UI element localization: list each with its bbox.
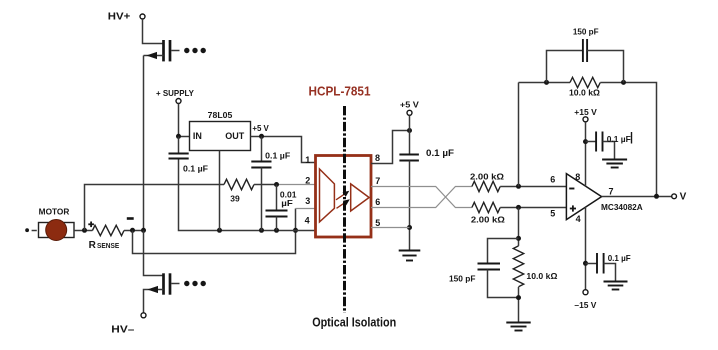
ground (C7) xyxy=(602,160,627,168)
wire 78L05 ground lead xyxy=(219,151,221,231)
optical isolation dash-dot line xyxy=(343,106,346,313)
resistor R3 2.00k (lower) xyxy=(472,202,500,212)
node supply junction xyxy=(176,134,181,139)
wire Q1 source down to sense node xyxy=(143,56,145,231)
node detour/rail junction xyxy=(293,228,298,233)
resistor R4 10.0k feedback xyxy=(570,77,600,87)
node motor lead continuation dot xyxy=(25,228,29,232)
wire pin5 stub xyxy=(371,227,410,229)
node ground junction xyxy=(516,295,521,300)
svg-text:HV–: HV– xyxy=(111,324,135,335)
node HV+ terminal xyxy=(140,14,145,19)
svg-text:1: 1 xyxy=(305,155,310,165)
svg-text:µF: µF xyxy=(281,198,293,208)
svg-text:0.1 µF: 0.1 µF xyxy=(265,150,290,160)
node -15V terminal xyxy=(583,290,588,295)
capacitor C6 150pF xyxy=(488,239,519,264)
node -15 cap junction xyxy=(583,261,588,266)
svg-text:8: 8 xyxy=(375,153,380,163)
svg-text:8: 8 xyxy=(575,172,580,182)
svg-text:0.1 µF: 0.1 µF xyxy=(607,134,631,144)
capacitor C1 0.1uF xyxy=(178,137,180,154)
wire 39 to pin2 node xyxy=(254,184,277,186)
node +5V junction xyxy=(259,134,264,139)
svg-text:7: 7 xyxy=(608,187,613,197)
wire feedback row xyxy=(519,82,571,84)
node pin5 junction xyxy=(407,225,412,230)
isolation amp U1 HCPL-7851 xyxy=(316,156,372,238)
svg-text:2: 2 xyxy=(305,176,310,186)
wire motor to node A xyxy=(74,230,92,232)
ground (below C4) xyxy=(399,251,421,261)
resistor R5 10.0k (vertical) xyxy=(513,246,523,287)
resistor R2 2.00k (upper) xyxy=(472,181,500,191)
svg-text:R: R xyxy=(89,240,97,251)
svg-text:6: 6 xyxy=(375,197,380,207)
capacitor C7 0.1uF (+15) xyxy=(586,141,597,143)
node A junction (R sense +) xyxy=(82,228,87,233)
svg-text:HV+: HV+ xyxy=(108,11,131,22)
wire pin5 node down xyxy=(518,208,520,246)
node pin5 junction (op-amp) xyxy=(516,205,521,210)
svg-text:5: 5 xyxy=(550,209,555,219)
wire R3 to op-amp pin5 xyxy=(500,207,566,209)
transistor Q1 (top MOSFET) xyxy=(164,40,171,61)
node +15V terminal xyxy=(583,117,588,122)
wire pin4 to -15V xyxy=(585,207,587,290)
node +5V right terminal xyxy=(407,110,412,115)
svg-text:3: 3 xyxy=(305,196,310,206)
svg-text:Optical Isolation: Optical Isolation xyxy=(312,315,396,330)
op-amp U3 MC34082A xyxy=(566,174,601,220)
svg-text:6: 6 xyxy=(550,175,555,185)
resistor R1 39 xyxy=(224,179,254,189)
wire OUT to +5V node xyxy=(251,137,316,163)
wire pin2 stub xyxy=(277,184,316,186)
wire node C down to Q2 drain xyxy=(144,231,164,276)
svg-text:+5 V: +5 V xyxy=(252,124,269,133)
wire motor lead dash xyxy=(32,230,37,232)
ground rail to pin4 xyxy=(179,159,316,231)
ellipsis dots Q1 (parallel FETs) xyxy=(184,48,206,53)
node output junction xyxy=(654,194,659,199)
svg-text:10.0 kΩ: 10.0 kΩ xyxy=(569,88,600,98)
ground (below R5) xyxy=(506,323,530,331)
wire pin3 stub xyxy=(296,208,316,210)
svg-text:4: 4 xyxy=(576,214,581,224)
svg-text:IN: IN xyxy=(193,131,202,141)
label - (minus) xyxy=(127,217,134,220)
node pin6 junction xyxy=(516,184,521,189)
node +15 cap junction xyxy=(583,139,588,144)
wire HV+ to Q1 drain xyxy=(143,19,164,44)
svg-text:2.00 kΩ: 2.00 kΩ xyxy=(470,171,504,181)
wire R2 to op-amp pin6 xyxy=(500,186,566,188)
node V terminal xyxy=(672,194,677,199)
svg-text:10.0 kΩ: 10.0 kΩ xyxy=(526,271,557,281)
svg-text:0.1 µF: 0.1 µF xyxy=(608,253,631,263)
node feedback junctions xyxy=(544,80,549,85)
svg-text:4: 4 xyxy=(305,216,310,226)
capacitor C4 0.1uF xyxy=(409,131,411,155)
capacitor C2 0.1uF xyxy=(261,137,263,162)
svg-text:MC34082A: MC34082A xyxy=(601,202,643,212)
svg-text:SENSE: SENSE xyxy=(97,243,120,250)
svg-text:V: V xyxy=(680,191,687,202)
wire feedback left vertical xyxy=(518,83,520,187)
wire pin7 cross to lower row xyxy=(371,187,472,208)
transistor Q2 (bottom MOSFET) xyxy=(164,273,171,294)
svg-text:150 pF: 150 pF xyxy=(449,273,476,283)
svg-text:+15 V: +15 V xyxy=(574,107,597,117)
label + (plus) xyxy=(88,222,94,228)
svg-text:OUT: OUT xyxy=(225,131,245,141)
svg-text:5: 5 xyxy=(375,218,380,228)
U1 output amp symbol xyxy=(351,184,369,211)
svg-text:–15 V: –15 V xyxy=(574,300,596,310)
wire sense- detour to pin3 xyxy=(133,209,296,254)
node RC junction xyxy=(516,236,521,241)
wire supply down xyxy=(179,104,190,137)
svg-text:39: 39 xyxy=(230,194,240,204)
node pin2 junction xyxy=(274,182,279,187)
node + SUPPLY terminal xyxy=(176,99,181,104)
resistor R SENSE xyxy=(92,225,124,235)
svg-text:0.1 µF: 0.1 µF xyxy=(183,163,208,173)
node B junction (R sense -) xyxy=(130,228,135,233)
node C junction (FET rail) xyxy=(141,228,146,233)
node HV- terminal xyxy=(141,313,146,318)
wire pin6 cross to upper row xyxy=(371,187,472,208)
node rail junctions xyxy=(217,228,222,233)
wire +15V to pin8 xyxy=(585,122,587,187)
wire sense+ up and pin2 row xyxy=(85,185,225,231)
capacitor C3 0.01uF xyxy=(276,185,278,211)
ground (C8) xyxy=(604,282,628,290)
capacitor C5 150pF feedback xyxy=(547,51,583,83)
svg-text:7: 7 xyxy=(375,176,380,186)
svg-text:150 pF: 150 pF xyxy=(573,27,599,37)
U1 opto arrows xyxy=(336,194,344,199)
wire pin8 to +5V node xyxy=(371,131,410,164)
motor M1 xyxy=(39,223,75,238)
svg-text:2.00 kΩ: 2.00 kΩ xyxy=(471,215,505,225)
svg-text:78L05: 78L05 xyxy=(208,110,233,120)
U1 input amp symbol xyxy=(320,169,335,222)
ellipsis dots Q2 (parallel FETs) xyxy=(184,281,206,286)
wire R sense to node B xyxy=(124,230,144,232)
svg-text:+ SUPPLY: + SUPPLY xyxy=(156,88,194,98)
svg-text:+5 V: +5 V xyxy=(400,100,420,109)
svg-text:MOTOR: MOTOR xyxy=(39,208,70,217)
svg-text:HCPL-7851: HCPL-7851 xyxy=(309,84,371,98)
svg-text:0.1 µF: 0.1 µF xyxy=(426,148,455,158)
capacitor C8 0.1uF (-15) xyxy=(586,263,598,265)
regulator U2 78L05 xyxy=(190,122,251,151)
wire output xyxy=(602,196,672,198)
node +5V right junction xyxy=(407,128,412,133)
